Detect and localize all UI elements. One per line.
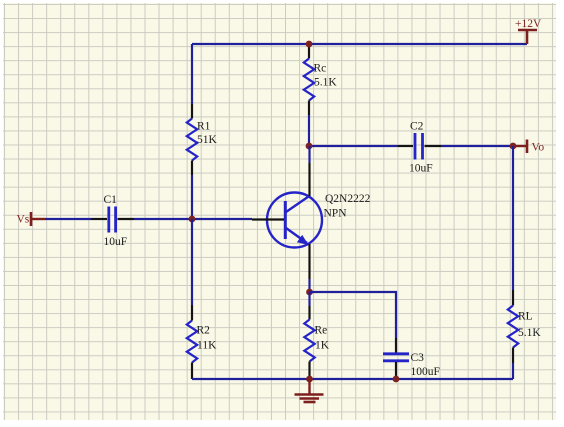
wire bottom rail xyxy=(192,378,513,380)
svg-text:C3: C3 xyxy=(411,352,425,364)
pin Rc-2 xyxy=(308,101,310,116)
wire collector to node xyxy=(308,146,310,163)
wire collector node to C2 xyxy=(309,145,398,147)
capacitor C1 10uF xyxy=(91,194,134,248)
pin Re-1 xyxy=(308,306,310,320)
svg-text:R2: R2 xyxy=(197,325,211,337)
resistor RL 5.1K xyxy=(508,306,542,348)
wire emitter to node xyxy=(308,279,310,292)
svg-text:Vo: Vo xyxy=(532,142,545,154)
svg-text:10uF: 10uF xyxy=(104,236,128,248)
svg-text:NPN: NPN xyxy=(324,208,348,220)
wire top rail xyxy=(192,43,527,45)
svg-text:RL: RL xyxy=(518,311,533,323)
wire R1 top vertical xyxy=(191,44,193,104)
pin Q1 emitter xyxy=(308,244,310,279)
junction dot node Vo/RL xyxy=(510,143,517,150)
pin R2-1 xyxy=(191,305,193,321)
capacitor C3 100uF xyxy=(383,352,440,378)
resistor R1 51K xyxy=(187,119,218,161)
svg-text:Q2N2222: Q2N2222 xyxy=(325,193,371,205)
svg-text:5.1K: 5.1K xyxy=(518,327,541,339)
svg-text:5.1K: 5.1K xyxy=(314,77,337,89)
pin R2-2 xyxy=(191,363,193,380)
pin RL-1 xyxy=(512,290,514,306)
wire RL top vertical xyxy=(512,146,514,290)
svg-text:100uF: 100uF xyxy=(411,366,440,378)
svg-text:Rc: Rc xyxy=(314,63,327,75)
svg-text:R1: R1 xyxy=(197,121,211,133)
svg-text:51K: 51K xyxy=(197,134,218,146)
wire emitter node down xyxy=(308,292,310,306)
resistor Rc 5.1K xyxy=(304,59,338,101)
resistor R2 11K xyxy=(187,321,217,363)
junction dot node Rc/C2/collector xyxy=(306,143,313,150)
junction dot node C3 rail xyxy=(393,376,400,383)
svg-text:C1: C1 xyxy=(104,194,118,206)
pin C3-2 xyxy=(395,362,397,379)
wire R1 bottom to base node xyxy=(191,175,193,219)
svg-text:11K: 11K xyxy=(197,340,217,352)
junction dot node ground rail xyxy=(306,376,313,383)
port Vs xyxy=(17,212,46,226)
power +12V xyxy=(515,18,542,44)
wire Vs to C1 xyxy=(45,218,91,220)
junction dot node base/R1/R2 xyxy=(189,216,196,223)
port Vo xyxy=(513,140,544,154)
svg-text:+12V: +12V xyxy=(515,18,542,30)
wire R2 top xyxy=(191,219,193,305)
pin Q1 collector xyxy=(308,163,310,196)
wire Rc bottom to collector node xyxy=(308,115,310,146)
pin RL-2 xyxy=(512,348,514,364)
svg-text:Re: Re xyxy=(315,325,328,337)
resistor Re 1K xyxy=(304,320,329,362)
transistor Q1 Q2N2222 NPN xyxy=(252,193,371,248)
pin R1-2 xyxy=(191,161,193,176)
ground xyxy=(295,379,324,402)
svg-text:Vs: Vs xyxy=(17,214,30,226)
junction dot node collector rail xyxy=(306,41,313,48)
svg-text:C2: C2 xyxy=(410,121,424,133)
svg-text:10uF: 10uF xyxy=(409,163,433,175)
wire C2 to Vo node xyxy=(441,145,513,147)
wire RL bottom to rail xyxy=(512,363,514,379)
junction dot node emitter xyxy=(306,289,313,296)
svg-text:1K: 1K xyxy=(315,340,330,352)
pin C3-1 xyxy=(395,338,397,353)
wire emitter node to C3 xyxy=(310,292,397,338)
capacitor C2 10uF xyxy=(398,121,441,175)
wire C1 to base node to transistor xyxy=(134,218,252,220)
pin Re-2 xyxy=(308,362,310,380)
pin R1-1 xyxy=(191,104,193,119)
pin Rc-1 xyxy=(308,44,310,59)
